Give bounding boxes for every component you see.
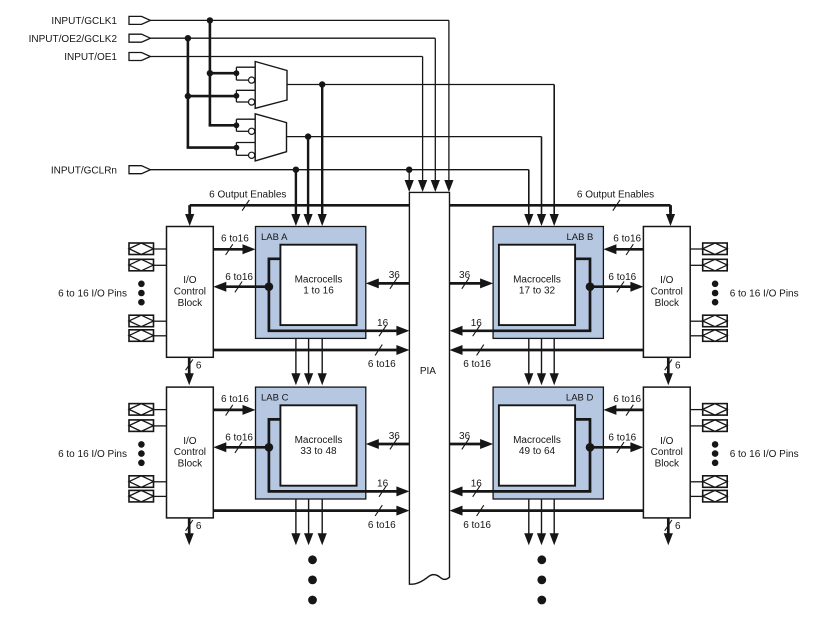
svg-text:LAB D: LAB D	[566, 393, 594, 404]
svg-text:16: 16	[377, 479, 389, 490]
mux U2	[255, 114, 286, 161]
svg-text:I/O: I/O	[183, 436, 197, 447]
svg-text:16: 16	[471, 479, 483, 490]
svg-text:6 to16: 6 to16	[221, 394, 249, 405]
wire 16 bus LAB D to PIA	[462, 490, 592, 493]
wire 36 bus PIA to LAB A	[378, 282, 410, 285]
svg-text:36: 36	[389, 270, 401, 281]
wire OE1 horizontal	[150, 56, 422, 58]
wire OE2 to mux2 input	[187, 146, 237, 149]
ellipsis I/O pins (right lower)	[712, 441, 719, 448]
wire 36 bus PIA to LAB D	[450, 443, 482, 446]
svg-text:6 to16: 6 to16	[368, 520, 396, 531]
svg-text:LAB B: LAB B	[566, 232, 593, 243]
svg-text:49 to 64: 49 to 64	[519, 446, 556, 457]
wire 6 pins down from I/O block (left)	[188, 357, 191, 374]
wires clocks down from LAB C	[295, 499, 297, 534]
wire 6 to16 I/O block to PIA (right upper)	[462, 349, 644, 352]
mux U1 input 1 bracket	[234, 70, 240, 76]
wire 6 to16 I/O block to PIA (left upper)	[213, 349, 397, 352]
svg-text:33 to 48: 33 to 48	[300, 446, 337, 457]
LAB block C	[256, 387, 366, 499]
wire GCLK1 horizontal	[150, 19, 449, 21]
I/O pin 4 (right upper)	[703, 330, 728, 342]
wire OE2 to mux1 input	[188, 95, 237, 98]
I/O Control Block (left upper)	[167, 227, 214, 358]
wire mux U2 output	[287, 136, 542, 138]
I/O pin 4 (right lower)	[703, 490, 728, 502]
wire 6 to16 I/O block to LAB B	[615, 248, 643, 251]
node OE2 feed junction	[185, 35, 191, 41]
svg-text:1 to 16: 1 to 16	[303, 285, 334, 296]
wire 6 to16 LAB B to I/O block	[590, 285, 631, 288]
node feedback junction LAB D	[586, 443, 595, 452]
I/O pin 3 (left upper)	[129, 315, 154, 327]
svg-text:6 to16: 6 to16	[613, 394, 641, 405]
wire macrocell feedback path LAB A	[269, 259, 281, 331]
wire 16 bus LAB C to PIA	[268, 490, 398, 493]
svg-text:INPUT/OE1: INPUT/OE1	[64, 52, 117, 63]
input pin INPUT/OE2/GCLK2	[129, 34, 150, 42]
I/O Control Block (right upper)	[643, 227, 690, 358]
svg-text:6 to 16 I/O Pins: 6 to 16 I/O Pins	[58, 449, 127, 460]
node feedback junction LAB C	[265, 443, 274, 452]
svg-text:Control: Control	[651, 287, 683, 298]
svg-text:Control: Control	[174, 447, 206, 458]
svg-text:6 to 16 I/O Pins: 6 to 16 I/O Pins	[730, 449, 799, 460]
svg-text:6: 6	[196, 521, 202, 532]
svg-text:Macrocells: Macrocells	[295, 435, 343, 446]
node GCLK1 feed junction	[207, 17, 213, 23]
svg-text:I/O: I/O	[660, 436, 674, 447]
node mux U1 output junction	[319, 81, 325, 87]
I/O pin 2 (right lower)	[703, 420, 728, 432]
svg-text:6 to16: 6 to16	[368, 359, 396, 370]
wire OE2 feed vertical	[187, 38, 190, 147]
svg-text:6: 6	[675, 521, 681, 532]
wire OE1 vertical to PIA	[422, 57, 424, 182]
I/O pin 2 (left upper)	[129, 259, 154, 271]
svg-text:Macrocells: Macrocells	[295, 274, 343, 285]
svg-text:17 to 32: 17 to 32	[519, 285, 556, 296]
ellipsis under LAB D	[537, 555, 546, 564]
I/O pin 1 (right lower)	[703, 404, 728, 416]
wire macrocell feedback path LAB B	[575, 259, 590, 331]
svg-text:6 to 16 I/O Pins: 6 to 16 I/O Pins	[730, 288, 799, 299]
wires clocks down from LAB B	[528, 338, 530, 374]
node GCLRn-LABA junction	[293, 167, 299, 173]
wire GCLRn to LAB A	[295, 170, 297, 215]
Macrocells block (1)	[280, 245, 356, 325]
svg-text:36: 36	[389, 431, 401, 442]
wire 6 Output Enables right	[450, 204, 671, 207]
svg-text:16: 16	[377, 318, 389, 329]
svg-text:I/O: I/O	[183, 275, 197, 286]
wire 6 to16 LAB C to I/O block	[225, 446, 269, 449]
node mux U2 output junction	[305, 133, 311, 139]
input pin INPUT/GCLRn	[129, 166, 150, 174]
svg-text:6 to16: 6 to16	[463, 359, 491, 370]
wire mux U1 to LAB B	[553, 85, 555, 216]
input pin INPUT/OE1	[129, 53, 150, 61]
I/O pin 4 (left upper)	[129, 330, 154, 342]
svg-text:6 Output Enables: 6 Output Enables	[577, 190, 654, 201]
I/O pin 3 (right lower)	[703, 476, 728, 488]
wire 16 bus LAB B to PIA	[462, 329, 592, 332]
wire 6 to16 I/O block to LAB C	[213, 409, 243, 412]
node OE2 to mux1 junction	[185, 93, 191, 99]
svg-text:6 to16: 6 to16	[225, 272, 253, 283]
wire OE2/GCLK2 vertical to PIA	[434, 38, 436, 181]
node GCLRn-PIA junction	[406, 167, 412, 173]
wire mux U2 to LAB A	[307, 137, 309, 215]
wire 6 to16 LAB D to I/O block	[590, 446, 631, 449]
node GCLK1 to mux1 junction	[207, 70, 213, 76]
wires clocks down from LAB D	[528, 499, 530, 534]
svg-text:Block: Block	[178, 459, 203, 470]
wire mux U2 to LAB B	[541, 137, 543, 215]
svg-text:6 Output Enables: 6 Output Enables	[209, 190, 286, 201]
svg-text:Block: Block	[178, 298, 203, 309]
I/O pin 3 (right upper)	[703, 315, 728, 327]
wire 6 to16 LAB A to I/O block	[225, 285, 269, 288]
svg-text:Macrocells: Macrocells	[513, 274, 561, 285]
wire OE2/GCLK2 horizontal	[150, 37, 435, 39]
svg-text:16: 16	[471, 318, 483, 329]
wires clocks down from LAB A	[295, 338, 297, 374]
LAB block D	[493, 387, 603, 499]
I/O pin 2 (left lower)	[129, 420, 154, 432]
wire 6 to16 I/O block to LAB A	[213, 248, 243, 251]
ellipsis I/O pins (left lower)	[138, 441, 145, 448]
mux U1	[255, 62, 287, 109]
svg-text:Block: Block	[655, 459, 680, 470]
wire macrocell feedback path LAB C	[269, 419, 281, 491]
I/O pin 1 (left upper)	[129, 243, 154, 255]
wire 36 bus PIA to LAB B	[450, 282, 482, 285]
svg-text:I/O: I/O	[660, 275, 674, 286]
svg-text:36: 36	[459, 270, 471, 281]
ellipsis under LAB C	[308, 555, 317, 564]
wire 6 to16 I/O block to PIA (right lower)	[462, 509, 644, 512]
svg-text:LAB A: LAB A	[261, 232, 288, 243]
wire 6 Output Enables left	[190, 204, 410, 207]
I/O pin 2 (right upper)	[703, 259, 728, 271]
wire 6 pins down from I/O block (right)	[667, 518, 670, 534]
wire 36 bus PIA to LAB C	[378, 443, 410, 446]
wire 16 bus LAB A to PIA	[268, 329, 398, 332]
svg-text:6 to16: 6 to16	[608, 272, 636, 283]
ellipsis I/O pins (left upper)	[138, 281, 145, 288]
node feedback junction LAB A	[265, 282, 274, 291]
mux U1 input 2 bracket	[234, 93, 240, 99]
wire macrocell feedback path LAB D	[575, 419, 590, 491]
wire mux U1 output	[287, 84, 554, 86]
input pin INPUT/GCLK1	[129, 16, 150, 24]
svg-text:6 to16: 6 to16	[463, 520, 491, 531]
svg-text:LAB C: LAB C	[261, 393, 289, 404]
I/O pin 3 (left lower)	[129, 476, 154, 488]
wire GCLRn to LAB B	[528, 170, 530, 215]
LAB block A	[256, 227, 366, 339]
wire GCLRn to PIA	[408, 170, 410, 181]
ellipsis I/O pins (right upper)	[712, 281, 719, 288]
PIA block	[409, 192, 449, 584]
svg-text:6 to16: 6 to16	[221, 233, 249, 244]
svg-text:6 to16: 6 to16	[608, 432, 636, 443]
wire GCLK1 vertical to PIA	[448, 20, 450, 181]
node feedback junction LAB B	[586, 282, 595, 291]
wire 6 to16 I/O block to LAB D	[615, 409, 643, 412]
I/O Control Block (right lower)	[643, 387, 690, 518]
svg-text:INPUT/GCLK1: INPUT/GCLK1	[51, 16, 117, 27]
svg-text:6: 6	[196, 360, 202, 371]
svg-text:6 to16: 6 to16	[225, 432, 253, 443]
mux U2 input 2 bracket	[234, 145, 240, 151]
wire GCLK1 to mux1 input	[210, 72, 237, 75]
wire GCLK1 to mux2 input	[209, 124, 237, 127]
I/O Control Block (left lower)	[167, 387, 214, 518]
mux U2 input 1 bracket	[234, 122, 240, 128]
I/O pin 4 (left lower)	[129, 490, 154, 502]
Macrocells block (17)	[499, 245, 575, 325]
wire GCLRn horizontal	[150, 169, 528, 171]
svg-text:6: 6	[675, 360, 681, 371]
wire 6 pins down from I/O block (left)	[188, 518, 191, 534]
wire 6 pins down from I/O block (right)	[667, 357, 670, 374]
I/O pin 1 (right upper)	[703, 243, 728, 255]
svg-text:Control: Control	[651, 447, 683, 458]
svg-text:INPUT/OE2/GCLK2: INPUT/OE2/GCLK2	[29, 34, 118, 45]
wire mux U1 to LAB A	[321, 85, 323, 216]
svg-text:6 to 16 I/O Pins: 6 to 16 I/O Pins	[58, 288, 127, 299]
LAB block B	[493, 227, 603, 339]
svg-text:6 to16: 6 to16	[613, 233, 641, 244]
svg-text:Block: Block	[655, 298, 680, 309]
svg-text:Control: Control	[174, 287, 206, 298]
wire GCLK1 feed vertical	[209, 20, 212, 125]
wire 6 to16 I/O block to PIA (left lower)	[213, 509, 397, 512]
I/O pin 1 (left lower)	[129, 404, 154, 416]
Macrocells block (33)	[280, 405, 356, 485]
svg-text:36: 36	[459, 431, 471, 442]
svg-text:PIA: PIA	[420, 366, 436, 377]
Macrocells block (49)	[499, 405, 575, 485]
svg-text:Macrocells: Macrocells	[513, 435, 561, 446]
svg-text:INPUT/GCLRn: INPUT/GCLRn	[51, 165, 117, 176]
